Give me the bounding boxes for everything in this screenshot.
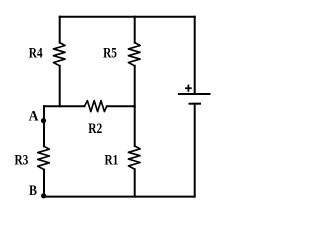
wire bottom horizontal [44, 196, 195, 198]
resistor R4 [53, 43, 65, 66]
wire R4 branch bottom lead [59, 66, 61, 106]
wire R5 top lead [134, 17, 136, 43]
node B junction dot [41, 193, 46, 198]
svg-text:B: B [29, 183, 37, 199]
wire R4 branch top lead [59, 17, 61, 43]
svg-text:R4: R4 [29, 45, 43, 61]
wire R1 bottom lead [134, 169, 136, 196]
wire node-B branch lower [43, 170, 45, 197]
battery V1 plates [178, 94, 211, 104]
wire top horizontal [60, 16, 195, 18]
wire node-A branch upper [43, 106, 45, 146]
svg-text:A: A [29, 108, 39, 124]
wire R5-to-R1 middle segment [134, 66, 136, 146]
svg-text:R1: R1 [105, 153, 119, 169]
wire battery top lead [194, 17, 196, 94]
node A junction dot [41, 118, 46, 123]
wire middle horizontal right of R2 [107, 105, 135, 107]
svg-text:R5: R5 [103, 45, 117, 61]
wire middle horizontal left of R2 [44, 105, 85, 107]
wire battery bottom lead [194, 104, 196, 197]
resistor R5 [128, 43, 140, 66]
resistor R2 [85, 101, 107, 112]
svg-text:R2: R2 [88, 121, 102, 137]
battery long plate (+) [178, 93, 211, 95]
svg-text:R3: R3 [15, 153, 29, 169]
battery short plate (-) [189, 103, 202, 105]
resistor R3 [38, 146, 50, 169]
battery plus sign [185, 85, 192, 92]
resistor R1 [128, 146, 140, 169]
